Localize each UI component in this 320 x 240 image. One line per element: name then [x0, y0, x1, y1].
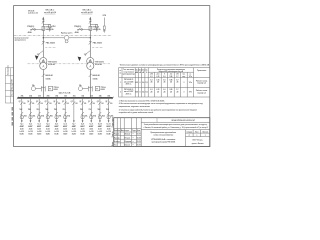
feeder 11 arrow end [108, 120, 110, 122]
svg-text:-2,5: -2,5 [170, 74, 173, 76]
feeder 7 junction [73, 97, 75, 99]
svg-text:1. Монтаж выполнить согласно П: 1. Монтаж выполнить согласно ПУЭ и СНиП … [119, 100, 165, 102]
earthing switch 2 [84, 51, 90, 56]
kWh meter 1 [31, 87, 41, 91]
svg-text:Wh: Wh [79, 85, 82, 87]
feeder 5 switch QF [55, 101, 58, 104]
feeder 9 switch QF [90, 101, 93, 104]
svg-text:5,7: 5,7 [176, 76, 178, 78]
cell boundary dash 2 [92, 47, 103, 49]
svg-text:проект» Ижевск: проект» Ижевск [192, 143, 204, 145]
feeder 2 arrow end [30, 120, 32, 122]
svg-text:2: 2 [120, 92, 121, 94]
svg-text:ПН2: ПН2 [89, 109, 92, 111]
feeder 1 wire [21, 98, 23, 121]
svg-text:100: 100 [40, 103, 43, 105]
svg-text:ТМГ-630/6-У1: ТМГ-630/6-У1 [124, 79, 134, 81]
feeder 2 description stack [28, 124, 33, 136]
svg-text:6,3: 6,3 [150, 79, 152, 81]
svg-text:L=120: L=120 [80, 131, 85, 133]
feeder 7 switch QF [72, 101, 75, 104]
feeder 3 wire [38, 98, 40, 121]
CT box 2 [95, 86, 99, 90]
feeder 9 arrow end [90, 120, 92, 122]
disconnector QS2 [89, 41, 92, 44]
svg-text:ПН2: ПН2 [63, 109, 66, 111]
feeder 11 fuse switch [107, 112, 110, 119]
transformer T1 label [48, 62, 57, 66]
pole disconnector LR1 stub [30, 28, 43, 31]
feeder 10 fuse switch [98, 112, 101, 119]
feeder 8 switch QF [81, 101, 84, 104]
svg-text:~~: ~~ [132, 141, 134, 143]
svg-text:Козлов: Козлов [125, 145, 130, 147]
feeder 11 wire [108, 98, 110, 121]
feeder 4 arrow end [47, 120, 49, 122]
svg-text:100: 100 [110, 103, 113, 105]
svg-text:6,0: 6,0 [163, 79, 165, 81]
metering device circle [64, 36, 69, 43]
feeder 8 wire [82, 98, 84, 121]
svg-text:Технические данные силового тр: Технические данные силового трансформато… [120, 64, 210, 67]
svg-text:15кВт: 15кВт [54, 134, 59, 136]
feeder 1 junction [21, 97, 23, 99]
incoming line 1 pole label [44, 10, 56, 14]
disconnector on incomer 2 [89, 21, 92, 24]
table data row 2 [120, 89, 208, 95]
feeder 4 fuse switch [46, 112, 49, 119]
svg-text:QF: QF [62, 101, 64, 103]
svg-text:100: 100 [66, 103, 69, 105]
feeder 1 fuse switch [20, 112, 23, 119]
svg-text:Дата: Дата [137, 130, 141, 132]
feeder 4 junction [47, 97, 49, 99]
svg-text:ПН2: ПН2 [37, 109, 40, 111]
svg-text:Тип, зав.номер: Тип, зав.номер [123, 69, 134, 71]
feeder 2 junction [30, 97, 32, 99]
feeder 7 description stack [72, 124, 77, 136]
svg-text:Прибор учёта: Прибор учёта [61, 32, 73, 34]
LV riser wire 2 [89, 70, 91, 98]
feeder 3 description stack [37, 124, 42, 136]
feeder 1 switch QF [20, 101, 23, 104]
title block grid [114, 118, 210, 147]
transformer T1 [40, 58, 47, 70]
svg-text:ЩО-70 0,4 кВ: ЩО-70 0,4 кВ [59, 91, 71, 94]
sheet name [151, 131, 177, 144]
svg-text:ПН2: ПН2 [80, 109, 83, 111]
svg-text:Иванов: Иванов [125, 134, 131, 136]
svg-text:Y/Yн: Y/Yн [189, 92, 192, 94]
switchboard label [59, 91, 71, 94]
svg-text:ПН2: ПН2 [106, 109, 109, 111]
feeder 3 switch QF [38, 101, 41, 104]
feeder 6 junction [64, 97, 66, 99]
svg-text:15кВт: 15кВт [46, 134, 51, 136]
svg-text:1: 1 [120, 82, 121, 84]
svg-text:L=120: L=120 [37, 131, 42, 133]
stage grid labels [187, 131, 208, 137]
feeder 1 arrow end [21, 120, 23, 122]
svg-text:Согласовано: Согласовано [8, 65, 10, 75]
svg-text:Пределы регулирования напряжен: Пределы регулирования напряжения [157, 69, 185, 71]
CT cable strokes 2 [88, 86, 92, 91]
svg-text:и год выпуска: и год выпуска [123, 71, 134, 73]
feeder 3 junction [38, 97, 40, 99]
svg-text:5,5: 5,5 [145, 82, 147, 84]
svg-text:Гр.2: Гр.2 [29, 124, 32, 126]
svg-text:05.19: 05.19 [137, 134, 141, 136]
designation cell divider [156, 118, 158, 123]
margin column labels (rotated) [111, 117, 114, 146]
svg-text:15кВт: 15кВт [20, 134, 25, 136]
svg-text:1000А: 1000А [46, 78, 52, 81]
svg-text:Сидоров: Сидоров [125, 141, 132, 143]
svg-text:QF: QF [53, 101, 55, 103]
title block row labels [114, 129, 141, 147]
svg-text:Гр.10: Гр.10 [98, 124, 102, 126]
svg-text:100: 100 [32, 103, 35, 105]
svg-text:6,0: 6,0 [163, 76, 165, 78]
svg-text:6,0: 6,0 [163, 89, 165, 91]
svg-text:пп: пп [119, 72, 121, 74]
svg-text:QF: QF [45, 101, 47, 103]
feeder 11 description stack [106, 124, 111, 136]
svg-text:ВА-88-40: ВА-88-40 [46, 74, 53, 77]
svg-text:100: 100 [92, 103, 95, 105]
svg-text:+2,5: +2,5 [156, 74, 159, 76]
feeder 4 switch QF [46, 101, 49, 104]
svg-text:6/0,4 кВ: 6/0,4 кВ [95, 63, 102, 66]
left margin stamp rotated labels [8, 65, 14, 95]
feeder 10 wire [99, 98, 101, 121]
feeder 3 fuse switch [37, 112, 40, 119]
svg-text:ПН2: ПН2 [54, 109, 57, 111]
ownership boundary dash-dot line [14, 35, 112, 37]
svg-text:QF: QF [97, 101, 99, 103]
svg-text:05.19: 05.19 [137, 137, 141, 139]
svg-text:630: 630 [136, 82, 139, 84]
tie jumper wire [43, 37, 90, 39]
fuse FU1 label [46, 27, 55, 31]
feeder 11 switch QF [107, 101, 110, 104]
LV breaker QF1 [42, 74, 45, 77]
LV riser wire 1 [42, 70, 44, 98]
LV breaker QF2 [89, 74, 92, 77]
svg-text:2019 г.в.: 2019 г.в. [126, 93, 133, 95]
svg-text:Гр.3: Гр.3 [38, 124, 41, 126]
main LV busbar 0.4kV [17, 97, 112, 99]
svg-text:РВЗ-10/400: РВЗ-10/400 [46, 42, 55, 45]
surge arrester FV3 branch [103, 18, 106, 33]
svg-text:потребителей и длине кабельных: потребителей и длине кабельных линий. [119, 111, 154, 114]
svg-text:Гр.1: Гр.1 [20, 124, 23, 126]
svg-text:напряжением, подлежат заземлен: напряжением, подлежат заземлению. [119, 106, 151, 108]
svg-text:МЭ4-УР256-019-2019-ЭС: МЭ4-УР256-019-2019-ЭС [172, 119, 196, 122]
disconnector QS1 [42, 41, 45, 44]
feeder 3 arrow end [38, 120, 40, 122]
svg-text:ПН2: ПН2 [28, 109, 31, 111]
table grid [119, 68, 210, 97]
svg-text:6,3: 6,3 [150, 89, 152, 91]
kWh meter 2 [78, 87, 88, 91]
svg-text:600/5: 600/5 [101, 89, 105, 91]
CT box 1 label [54, 86, 60, 91]
svg-text:Y/Yн: Y/Yн [189, 76, 192, 78]
CT cable strokes 1 [41, 86, 45, 91]
feeder 9 description stack [89, 124, 94, 136]
feeder 2 wire [29, 98, 31, 121]
tie junction dot 2 [90, 37, 91, 38]
feeder 6 wire [64, 98, 66, 121]
svg-text:Y/Yн: Y/Yн [189, 82, 192, 84]
fuse FU2 label [93, 27, 102, 31]
feeder 5 description stack [54, 124, 59, 136]
svg-text:L=120: L=120 [89, 131, 94, 133]
svg-text:Wh: Wh [32, 85, 35, 87]
CT box 1 [48, 86, 52, 90]
svg-text:6,15: 6,15 [156, 89, 159, 91]
svg-text:QF: QF [27, 101, 29, 103]
svg-text:Р: Р [189, 135, 190, 137]
feeder 11 junction [108, 97, 110, 99]
svg-text:15кВт: 15кВт [80, 134, 85, 136]
CT box 2 label [101, 86, 107, 91]
svg-text:5,85: 5,85 [169, 89, 172, 91]
svg-text:РВЗ-10/400: РВЗ-10/400 [93, 42, 102, 45]
svg-text:2. Все металлические нетоковед: 2. Все металлические нетоковедущие части… [119, 103, 204, 105]
svg-text:5,7: 5,7 [176, 89, 178, 91]
feeder 9 fuse switch [90, 112, 93, 119]
feeder 1 description stack [20, 124, 25, 136]
svg-text:QF: QF [88, 101, 90, 103]
table header texts [119, 69, 206, 78]
svg-text:Н.контр.: Н.контр. [114, 141, 121, 143]
svg-text:15кВт: 15кВт [98, 134, 103, 136]
svg-text:Лист: Лист [195, 131, 199, 133]
svg-text:15кВт: 15кВт [63, 134, 68, 136]
feeder 9 wire [90, 98, 92, 121]
feeder 7 arrow end [73, 120, 75, 122]
svg-text:ВА-88-40: ВА-88-40 [93, 74, 100, 77]
transformer T2 [87, 58, 94, 70]
svg-text:Гр.5: Гр.5 [55, 124, 58, 126]
svg-text:100: 100 [49, 103, 52, 105]
svg-text:1000А: 1000А [93, 78, 99, 81]
feeder 5 wire [56, 98, 58, 121]
svg-text:ВЛ-6 кВ: ВЛ-6 кВ [28, 10, 35, 12]
svg-text:Провер.: Провер. [114, 137, 121, 139]
svg-text:630: 630 [136, 92, 139, 94]
svg-text:L=120: L=120 [106, 131, 111, 133]
feeder 2 switch QF [29, 101, 32, 104]
svg-text:ТМГ-630/6-У1: ТМГ-630/6-У1 [124, 89, 134, 91]
disconnector on incomer 1 [42, 21, 45, 24]
fuse FU1 [42, 26, 45, 30]
svg-text:принадлежности: принадлежности [15, 39, 26, 41]
svg-text:3. Сечения и марки кабелей уто: 3. Сечения и марки кабелей уточнить при … [119, 108, 197, 111]
feeder 10 description stack [98, 124, 103, 136]
feeder 10 junction [99, 97, 101, 99]
pole disconnector LR2 stub [77, 28, 90, 31]
svg-text:ПН2: ПН2 [19, 109, 22, 111]
svg-text:L=120: L=120 [20, 131, 25, 133]
svg-text:ПН2: ПН2 [97, 109, 100, 111]
tie junction dot 1 [43, 37, 44, 38]
fuse FU2 [89, 26, 92, 30]
earthing switch 1 [37, 51, 43, 56]
feeder 8 junction [82, 97, 84, 99]
feeder 4 wire [47, 98, 49, 121]
svg-text:Подп. и дата: Подп. и дата [112, 117, 114, 127]
cell boundary dash 1 [45, 47, 56, 49]
svg-text:ПН2: ПН2 [45, 109, 48, 111]
notes paragraph [119, 100, 204, 114]
svg-text:15кВт: 15кВт [89, 134, 94, 136]
svg-text:~~: ~~ [132, 137, 134, 139]
svg-text:L=120: L=120 [63, 131, 68, 133]
svg-text:оп.№18 ф.6-21: оп.№18 ф.6-21 [81, 11, 93, 14]
surge arrester FV1 [43, 24, 51, 31]
svg-text:100: 100 [75, 103, 78, 105]
svg-text:2019 г.в.: 2019 г.в. [126, 84, 133, 86]
svg-text:600/5: 600/5 [54, 89, 58, 91]
svg-text:100: 100 [58, 103, 61, 105]
svg-text:15кВт: 15кВт [37, 134, 42, 136]
svg-text:QF: QF [105, 101, 107, 103]
svg-text:15кВт: 15кВт [28, 134, 33, 136]
incoming line 1 source label [28, 10, 38, 14]
svg-text:Листов: Листов [203, 131, 208, 133]
svg-text:Примечание: Примечание [197, 70, 206, 72]
feeder 5 arrow end [56, 120, 58, 122]
svg-text:100: 100 [84, 103, 87, 105]
svg-text:05.19: 05.19 [137, 145, 141, 147]
svg-text:Гр.11: Гр.11 [107, 124, 111, 126]
svg-text:15кВт: 15кВт [106, 134, 111, 136]
feeder 6 description stack [63, 124, 68, 136]
svg-text:05.19: 05.19 [137, 141, 141, 143]
svg-text:РЛНД-10: РЛНД-10 [74, 26, 81, 28]
organization name [192, 140, 204, 145]
svg-text:L=120: L=120 [54, 131, 59, 133]
pole disconnector LR1 label [27, 26, 34, 34]
svg-text:Гр.7: Гр.7 [72, 124, 75, 126]
svg-text:L=120: L=120 [72, 131, 77, 133]
svg-text:ГИП: ГИП [12, 80, 14, 83]
svg-text:Гр.6: Гр.6 [64, 124, 67, 126]
svg-text:Гл.спец: Гл.спец [12, 90, 14, 96]
svg-text:Гр.9: Гр.9 [90, 124, 93, 126]
feeder 5 fuse switch [55, 112, 58, 119]
feeder 8 arrow end [82, 120, 84, 122]
KTP enclosure dash-dot line [28, 63, 111, 65]
svg-text:100: 100 [101, 103, 104, 105]
svg-text:РЛНД-10: РЛНД-10 [27, 26, 34, 28]
incoming line 2 wire [89, 17, 91, 58]
svg-text:L=120: L=120 [46, 131, 51, 133]
title block frame [114, 118, 210, 147]
feeder 8 description stack [80, 124, 85, 136]
LV breaker QF1 label [46, 74, 53, 81]
svg-text:6,15: 6,15 [156, 76, 159, 78]
svg-text:ООО «Энерго-: ООО «Энерго- [192, 140, 203, 142]
busbar end tick left [17, 97, 19, 100]
svg-text:Стадия: Стадия [187, 131, 193, 133]
svg-text:L=120: L=120 [28, 131, 33, 133]
feeder 6 arrow end [64, 120, 66, 122]
feeder 5 junction [56, 97, 58, 99]
svg-text:оп.№32 ф.6-14: оп.№32 ф.6-14 [44, 11, 56, 14]
feeder 10 arrow end [99, 120, 101, 122]
incoming line 1 pole label underline [45, 13, 56, 15]
svg-text:5,7: 5,7 [176, 79, 178, 81]
incoming line 2 pole label underline [82, 13, 93, 15]
feeder 9 junction [90, 97, 92, 99]
svg-text:~~: ~~ [132, 145, 134, 147]
svg-text:5,5: 5,5 [145, 92, 147, 94]
svg-text:6/0,4 кВ: 6/0,4 кВ [48, 63, 55, 66]
svg-text:Петров: Петров [125, 137, 130, 139]
earthing ground solid wedge 2 [78, 57, 82, 62]
left margin stamp table [5, 68, 13, 103]
feeder 10 switch QF [98, 101, 101, 104]
feeder 4 description stack [46, 123, 51, 136]
svg-text:~~: ~~ [132, 134, 134, 136]
transformer T2 label [95, 62, 104, 66]
drawing frame border [14, 6, 210, 147]
feeder 2 fuse switch [29, 112, 32, 119]
feeder 6 fuse switch [63, 112, 66, 119]
svg-text:QF: QF [36, 101, 38, 103]
svg-text:QF: QF [71, 101, 73, 103]
svg-text:QF: QF [79, 101, 81, 103]
feeder 6 switch QF [64, 101, 67, 104]
svg-text:100: 100 [23, 103, 26, 105]
incoming line 2 pole label [81, 10, 93, 14]
table data row 1 [120, 79, 208, 85]
svg-text:5,85: 5,85 [169, 79, 172, 81]
earthing ground solid wedge 1 [35, 55, 39, 60]
surge arrester FV2 [90, 24, 98, 31]
incoming line 1 wire [42, 17, 44, 58]
svg-text:15кВт: 15кВт [72, 134, 77, 136]
feeder 7 wire [73, 98, 75, 121]
svg-text:Гр.8: Гр.8 [81, 124, 84, 126]
feeder 8 fuse switch [81, 112, 84, 119]
svg-text:6,15: 6,15 [156, 79, 159, 81]
svg-text:L=120: L=120 [98, 131, 103, 133]
pole disconnector LR2 label [74, 26, 81, 34]
object name [143, 123, 208, 129]
svg-text:5,85: 5,85 [169, 76, 172, 78]
svg-text:6,3: 6,3 [150, 76, 152, 78]
busbar end tick right [112, 97, 114, 100]
boundary label [15, 36, 29, 41]
svg-text:Нач.отд: Нач.отд [12, 84, 14, 90]
svg-text:QF: QF [19, 101, 21, 103]
LV breaker QF2 label [93, 74, 100, 81]
left margin inventory labels [12, 107, 13, 126]
